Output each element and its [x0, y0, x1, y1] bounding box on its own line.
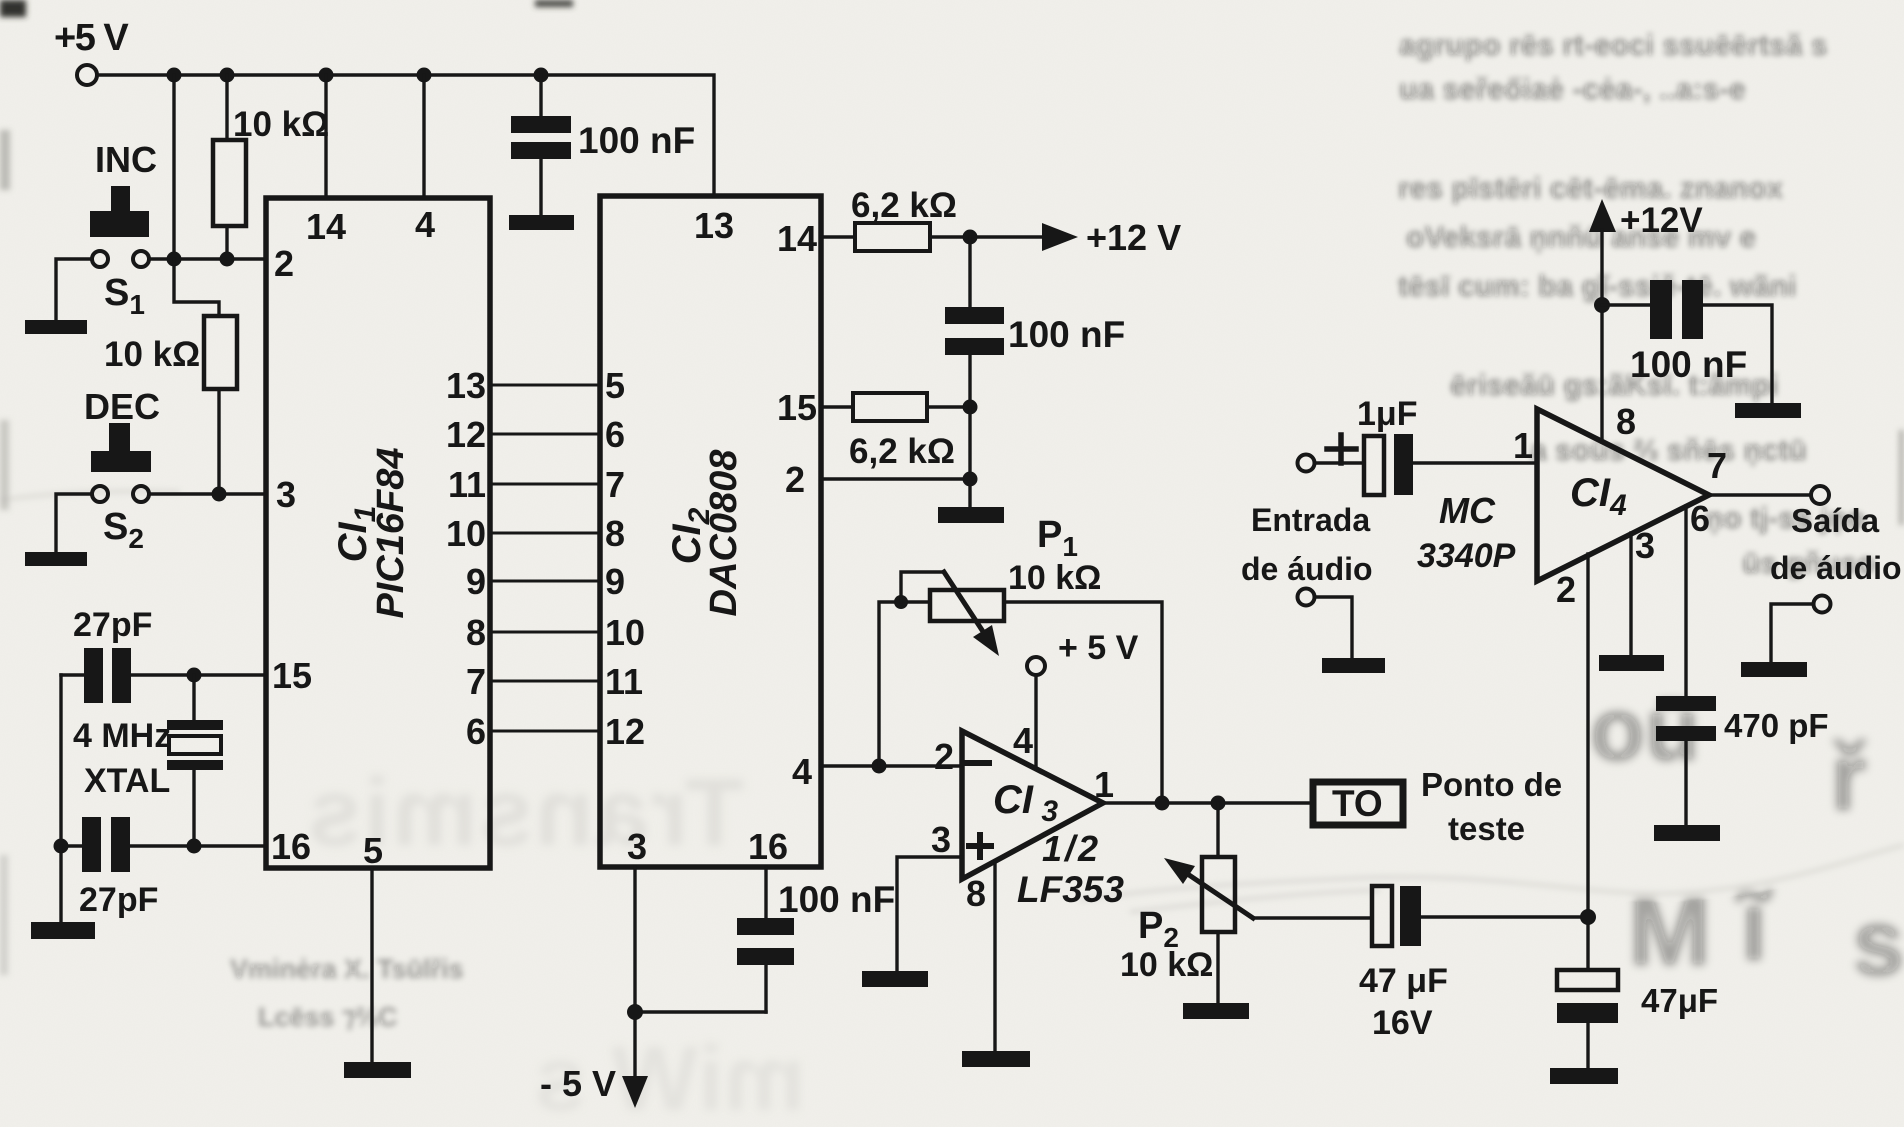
wire bus to S1 row	[172, 75, 175, 259]
wire CI2 pin2 row	[821, 407, 970, 508]
wire S1 to CI1 pin 2	[149, 257, 266, 260]
svg-text:9: 9	[466, 561, 486, 602]
svg-text:10 kΩ: 10 kΩ	[1120, 946, 1213, 984]
test point box TO	[1313, 782, 1403, 825]
node bus-d	[417, 68, 432, 83]
resistor R 10k pull-up	[225, 75, 228, 259]
svg-text:3: 3	[931, 819, 951, 860]
svg-text:10 kΩ: 10 kΩ	[1008, 559, 1101, 597]
svg-text:6: 6	[605, 414, 625, 455]
svg-text:100 nF: 100 nF	[578, 120, 695, 161]
svg-text:3: 3	[276, 474, 296, 515]
wire bus to CI1 pin 14	[324, 75, 327, 198]
+12V arrow feed CI4	[1589, 199, 1616, 232]
node osc-16b	[187, 839, 202, 854]
node P1-left	[894, 595, 908, 609]
ground under CI4 pin3	[1599, 655, 1664, 671]
svg-text:16V: 16V	[1372, 1004, 1433, 1042]
svg-text:ř: ř	[1830, 725, 1867, 831]
svg-text:agrupo rēs rt-eoci ssuēērtsă s: agrupo rēs rt-eoci ssuēērtsă s	[1399, 29, 1828, 62]
wire osc bus to ground	[59, 846, 62, 923]
svg-text:de áudio: de áudio	[1241, 551, 1373, 587]
node bus-a	[167, 68, 182, 83]
switch S1 contacts	[92, 251, 108, 267]
ground under CI3 pin3	[862, 971, 928, 987]
svg-text:Entrada: Entrada	[1251, 502, 1370, 538]
svg-text:s: s	[1852, 890, 1904, 996]
node bus-b	[220, 68, 235, 83]
node -5v	[627, 1004, 643, 1020]
wire CI2 pin4 to CI3 pin2	[821, 764, 962, 767]
plus polarity mark	[1327, 435, 1356, 463]
svg-text:470 pF: 470 pF	[1724, 707, 1829, 744]
wire left osc bus	[59, 675, 62, 846]
wire bus to CI1 pin 4	[422, 75, 425, 198]
svg-text:Lcēss ⁊⅔C: Lcēss ⁊⅔C	[258, 1002, 398, 1032]
ground under S2	[25, 552, 87, 566]
capacitor 100nF on CI4 supply	[1602, 305, 1772, 404]
capacitor 27pF lower	[61, 844, 266, 847]
svg-text:47 μF: 47 μF	[1359, 962, 1448, 1000]
svg-text:13: 13	[694, 205, 734, 246]
wire data bus CI1-11 to CI2-7	[490, 483, 600, 486]
switch S2 contacts	[92, 486, 108, 502]
svg-text:LF353: LF353	[1017, 869, 1124, 910]
IC CI2 DAC0808	[600, 196, 821, 867]
minus input mark	[967, 760, 989, 766]
node fb	[872, 759, 887, 774]
wire CI4 pin2 down	[1586, 554, 1589, 970]
svg-text:- 5 V: - 5 V	[540, 1063, 616, 1104]
svg-text:10: 10	[605, 612, 645, 653]
ground under osc	[31, 922, 95, 939]
node bus-e	[534, 68, 549, 83]
svg-text:Ponto de: Ponto de	[1421, 766, 1562, 803]
svg-text:100 nF: 100 nF	[778, 879, 895, 920]
svg-text:6,2 kΩ: 6,2 kΩ	[851, 186, 957, 225]
svg-text:14: 14	[306, 206, 346, 247]
svg-text:15: 15	[272, 655, 312, 696]
svg-text:3: 3	[627, 826, 647, 867]
svg-text:de áudio: de áudio	[1770, 550, 1902, 586]
svg-text:2: 2	[1556, 569, 1576, 610]
svg-text:TO: TO	[1332, 783, 1383, 824]
svg-text:4: 4	[415, 204, 435, 245]
capacitor 100nF on 12V	[968, 237, 971, 407]
svg-text:13: 13	[446, 365, 486, 406]
wire +5V top bus to CI2 pin 13	[97, 75, 714, 196]
svg-text:res pīstēri cēt-ēma. znanox: res pīstēri cēt-ēma. znanox	[1398, 172, 1783, 205]
svg-text:2: 2	[785, 459, 805, 500]
svg-text:6,2 kΩ: 6,2 kΩ	[849, 432, 955, 471]
faint scan creases	[0, 491, 1904, 912]
wire data bus CI1-7 to CI2-11	[490, 680, 600, 683]
svg-text:8: 8	[1616, 401, 1636, 442]
svg-text:Saída: Saída	[1791, 502, 1880, 539]
ground under 6.2k divider	[938, 507, 1004, 523]
wire CI3 pin3 to ground	[897, 857, 962, 972]
op-amp CI3 1/2 LF353	[962, 731, 1103, 879]
audio output terminal	[1811, 486, 1829, 504]
svg-text:MC: MC	[1439, 490, 1496, 531]
capacitor 47uF deemphasis	[1557, 970, 1618, 990]
wire data bus CI1-8 to CI2-10	[490, 631, 600, 634]
plus input mark	[969, 835, 991, 857]
audio output ground terminal	[1814, 596, 1831, 613]
capacitor 470pF on pin6	[1684, 506, 1687, 826]
node S2-R	[212, 487, 227, 502]
ground under CI4 100nF	[1735, 403, 1801, 418]
node bus-c	[319, 68, 334, 83]
svg-text:27pF: 27pF	[79, 881, 158, 919]
wire CI1 pin 5 to ground	[370, 868, 373, 1063]
capacitor 100nF supply decoupling	[539, 75, 542, 216]
wire data bus CI1-9 to CI2-9	[490, 580, 600, 583]
svg-text:5: 5	[605, 365, 625, 406]
svg-text:9: 9	[605, 561, 625, 602]
wire CI3 pin8 to ground	[993, 862, 996, 1052]
svg-text:14: 14	[777, 218, 817, 259]
node 12v-ci4	[1594, 297, 1610, 313]
svg-text:15: 15	[777, 387, 817, 428]
svg-text:7: 7	[605, 464, 625, 505]
ground under 100nF	[509, 215, 574, 230]
ground under input	[1322, 658, 1385, 673]
wire CI4 pin3 to ground	[1629, 533, 1632, 656]
svg-text:100 nF: 100 nF	[1630, 344, 1747, 385]
pushbutton DEC symbol	[109, 423, 130, 453]
svg-text:a soūs ⅔ sňēs ņctū: a soūs ⅔ sňēs ņctū	[1530, 434, 1807, 467]
+5V supply terminal	[77, 65, 97, 85]
svg-text:4: 4	[1013, 720, 1033, 761]
capacitor 100nF under CI2	[764, 867, 767, 1012]
pushbutton INC symbol	[111, 186, 130, 213]
node S1-b	[220, 252, 235, 267]
svg-text:Vminėra X. Tsūlřis: Vminėra X. Tsūlřis	[230, 954, 464, 984]
wire CI3 output to TO	[1103, 801, 1311, 804]
wire S2 to ground	[56, 494, 92, 553]
svg-text:INC: INC	[95, 139, 157, 180]
wire data bus CI1-6 to CI2-12	[490, 730, 600, 733]
+5V terminal for CI3	[1027, 657, 1045, 675]
svg-text:1: 1	[1094, 764, 1114, 805]
node out-a	[1155, 796, 1170, 811]
svg-text:10 kΩ: 10 kΩ	[233, 105, 329, 144]
svg-text:12: 12	[605, 711, 645, 752]
svg-text:16: 16	[748, 826, 788, 867]
capacitor 1uF electrolytic	[1315, 461, 1537, 464]
bottom-right big ghost letters	[1590, 680, 1904, 996]
arrow -5V	[622, 1076, 648, 1108]
svg-text:7: 7	[1707, 445, 1727, 486]
svg-text:DAC0808: DAC0808	[703, 449, 745, 617]
svg-text:8: 8	[466, 612, 486, 653]
IC CI1 PIC16F84	[266, 198, 490, 868]
svg-text:16: 16	[271, 826, 311, 867]
svg-text:47μF: 47μF	[1641, 982, 1718, 1019]
node 47u	[1580, 909, 1596, 925]
svg-text:+12 V: +12 V	[1086, 217, 1181, 258]
svg-text:+ 5 V: + 5 V	[1058, 629, 1139, 667]
wire data bus CI1-13 to CI2-5	[490, 384, 600, 387]
resistor 6.2k lower	[821, 405, 970, 408]
svg-text:2: 2	[274, 243, 294, 284]
wire CI2 pin3 to -5V	[635, 867, 766, 1078]
ground under CI3 pin8	[962, 1051, 1030, 1067]
potentiometer P2 10k	[1216, 803, 1219, 1004]
amplifier CI4 MC3340P	[1537, 409, 1709, 581]
node S1-a	[167, 252, 182, 267]
svg-text:teste: teste	[1448, 810, 1525, 847]
node 12v-b	[963, 400, 978, 415]
wire S2 to CI1 pin 3	[149, 492, 266, 495]
svg-text:8: 8	[605, 513, 625, 554]
ground under P2	[1183, 1003, 1249, 1019]
svg-text:ua seřeőiaė -cėa-, ..a:s-e: ua seřeőiaė -cėa-, ..a:s-e	[1399, 73, 1746, 106]
svg-text:2: 2	[934, 736, 954, 777]
svg-text:27pF: 27pF	[73, 606, 152, 644]
wire +5V to CI3 pin4	[1034, 676, 1037, 768]
svg-text:PIC16F84: PIC16F84	[370, 447, 412, 618]
ground under 470pF	[1654, 825, 1720, 841]
potentiometer P1 10k	[901, 572, 943, 602]
svg-text:4 MHz: 4 MHz	[73, 717, 171, 755]
svg-text:DEC: DEC	[84, 386, 160, 427]
wire feedback riser	[879, 602, 930, 766]
arrow to +12V	[1042, 223, 1078, 251]
svg-text:tēsī cum: ba gĩ-ssiě-tē. wãni: tēsī cum: ba gĩ-ssiě-tē. wãni	[1398, 270, 1796, 303]
svg-text:12: 12	[446, 414, 486, 455]
node 12v-c	[963, 472, 978, 487]
ground under CI1 pin5	[344, 1062, 411, 1078]
svg-text:7: 7	[466, 661, 486, 702]
svg-text:oVeksrā ņnňū anse mv e: oVeksrā ņnňū anse mv e	[1406, 221, 1756, 254]
svg-text:11: 11	[448, 464, 486, 505]
ground under S1	[25, 320, 87, 334]
svg-text:1μF: 1μF	[1357, 395, 1417, 433]
svg-text:+12V: +12V	[1620, 201, 1703, 240]
ground under output	[1741, 662, 1807, 677]
svg-text:1/2: 1/2	[1042, 828, 1101, 869]
ground under 47uF	[1550, 1068, 1618, 1084]
capacitor 47uF 16V coupling	[1253, 917, 1588, 918]
svg-text:3: 3	[1635, 525, 1655, 566]
svg-text:6: 6	[1690, 498, 1710, 539]
svg-text:11: 11	[605, 661, 643, 702]
dark edge artifacts	[0, 0, 26, 17]
wire P1 to output node	[1004, 602, 1162, 803]
node osc-15	[187, 668, 202, 683]
wire S1 to ground	[56, 259, 92, 321]
svg-text:100 nF: 100 nF	[1008, 314, 1125, 355]
svg-text:4: 4	[792, 751, 812, 792]
svg-text:8: 8	[966, 873, 986, 914]
resistor 6.2k upper	[821, 235, 1044, 238]
svg-text:10 kΩ: 10 kΩ	[104, 335, 200, 374]
node 12v-a	[963, 230, 978, 245]
wire data bus CI1-12 to CI2-6	[490, 433, 600, 436]
svg-text:5: 5	[363, 830, 383, 871]
crystal XTAL 4MHz	[192, 675, 195, 846]
resistor R 10k pull-down, wire from S1 node	[174, 259, 219, 494]
node out-b	[1211, 796, 1226, 811]
audio input terminal	[1298, 455, 1315, 472]
svg-text:3340P: 3340P	[1417, 537, 1516, 575]
wire data bus CI1-10 to CI2-8	[490, 532, 600, 535]
wire CI4 pin7 to output terminal	[1709, 493, 1811, 496]
svg-text:6: 6	[466, 711, 486, 752]
svg-text:+5 V: +5 V	[54, 17, 129, 59]
svg-text:XTAL: XTAL	[84, 762, 170, 800]
audio input ground terminal	[1298, 589, 1315, 606]
node osc-16a	[54, 839, 69, 854]
svg-text:10: 10	[446, 513, 486, 554]
svg-text:1: 1	[1513, 425, 1533, 466]
